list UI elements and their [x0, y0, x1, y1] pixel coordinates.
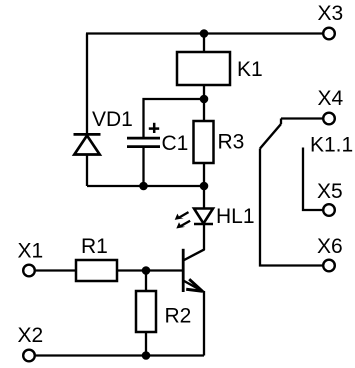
- svg-text:C1: C1: [162, 132, 189, 155]
- junction dot top rail / K1: [200, 29, 209, 38]
- terminal X3: [323, 28, 335, 40]
- wire X1 to R1: [36, 269, 76, 271]
- svg-text:X3: X3: [318, 2, 344, 25]
- junction dot base node: [142, 266, 151, 275]
- diode VD1 triangle: [74, 136, 99, 155]
- wire VD1 bottom lead: [86, 155, 88, 187]
- capacitor C1 top plate: [127, 137, 160, 140]
- svg-text:X6: X6: [317, 235, 343, 258]
- svg-text:R2: R2: [165, 304, 192, 327]
- LED HL1 triangle: [194, 209, 213, 224]
- wire R3 bottom to LED: [203, 163, 205, 209]
- wire top rail: [86, 32, 324, 34]
- relay coil K1: [177, 52, 230, 85]
- svg-text:X2: X2: [18, 324, 44, 347]
- svg-text:X1: X1: [18, 240, 44, 263]
- LED arrow upper: [175, 212, 189, 220]
- wire rail VD1 C1 R3: [87, 185, 204, 187]
- contact stub X4: [280, 119, 282, 125]
- wire bottom rail X2 to emitter: [36, 354, 204, 356]
- wire C1 bottom lead: [142, 147, 144, 186]
- capacitor C1 bottom plate: [127, 145, 160, 148]
- terminal X2: [23, 350, 35, 362]
- wire X4 lead: [281, 117, 324, 119]
- wire K1 top lead: [203, 34, 205, 53]
- junction dot R2 bottom rail: [142, 351, 151, 360]
- resistor R1: [76, 260, 117, 281]
- svg-text:VD1: VD1: [92, 108, 133, 131]
- terminal X5: [323, 204, 335, 216]
- terminal X4: [323, 113, 335, 125]
- svg-text:R3: R3: [218, 131, 245, 154]
- wire node A to C1 top: [144, 99, 205, 139]
- terminal X1: [23, 265, 35, 277]
- junction dot C1 bottom: [139, 182, 148, 191]
- svg-text:HL1: HL1: [216, 205, 255, 228]
- transistor collector diagonal: [183, 249, 204, 260]
- wire K1 bottom to node A to R3: [203, 85, 205, 121]
- terminal X6: [323, 260, 335, 272]
- svg-text:X4: X4: [318, 87, 344, 110]
- junction dot node A: [200, 95, 209, 104]
- LED arrow lower: [176, 221, 190, 229]
- emitter arrowhead: [186, 279, 202, 291]
- switch blade K1.1: [260, 124, 281, 149]
- wire base node to R2: [145, 271, 147, 292]
- wire R1 to base: [117, 269, 183, 271]
- svg-text:K1.1: K1.1: [310, 134, 353, 157]
- wire X5 contact: [303, 148, 323, 211]
- wire VD1 top lead: [86, 34, 88, 136]
- LED HL1 cathode bar: [194, 223, 213, 226]
- wire pivot to X6: [260, 149, 324, 266]
- resistor R3: [194, 121, 214, 163]
- wire emitter down: [203, 291, 205, 356]
- resistor R2: [136, 291, 156, 332]
- diode VD1 cathode bar: [74, 133, 101, 136]
- transistor base bar: [182, 249, 185, 292]
- svg-text:X5: X5: [317, 180, 343, 203]
- transistor emitter diagonal: [183, 281, 204, 293]
- svg-text:R1: R1: [81, 235, 108, 258]
- svg-text:K1: K1: [237, 58, 263, 81]
- wire R2 bottom: [145, 332, 147, 356]
- wire LED cathode to collector: [203, 224, 205, 250]
- junction dot rail1 R3: [200, 182, 209, 191]
- polarity plus sign: [149, 123, 159, 133]
